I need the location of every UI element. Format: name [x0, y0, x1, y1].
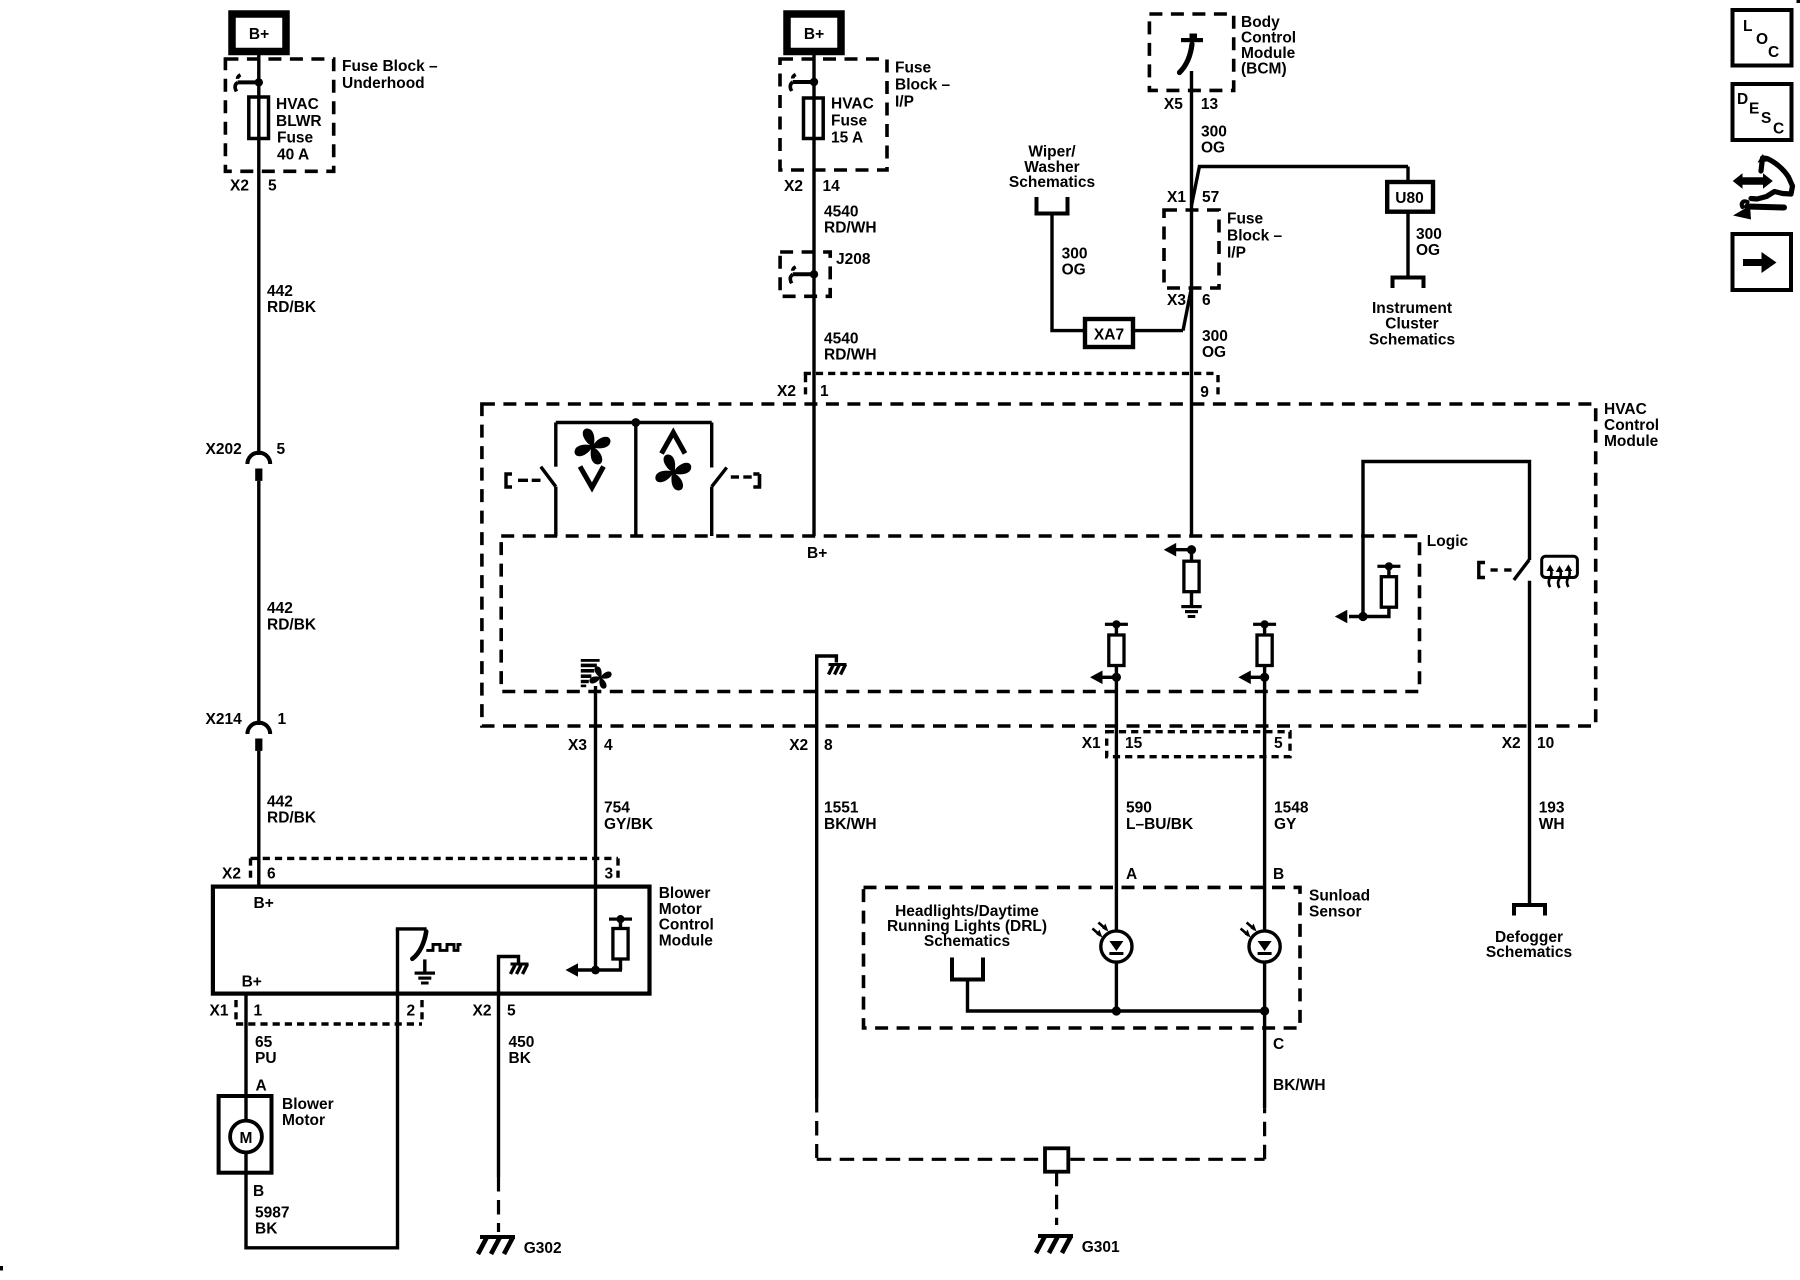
svg-text:Block –: Block –: [895, 77, 951, 94]
svg-text:B+: B+: [242, 974, 262, 991]
svg-text:10: 10: [1537, 735, 1554, 752]
svg-text:5987: 5987: [255, 1205, 289, 1222]
svg-text:4540: 4540: [824, 331, 858, 348]
svg-text:OG: OG: [1062, 262, 1086, 279]
svg-text:RD/BK: RD/BK: [267, 810, 317, 827]
svg-text:U80: U80: [1395, 190, 1423, 207]
svg-text:GY/BK: GY/BK: [604, 816, 654, 833]
svg-text:X1: X1: [210, 1003, 229, 1020]
svg-text:I/P: I/P: [895, 94, 914, 111]
svg-text:Fuse: Fuse: [831, 113, 868, 130]
svg-text:300: 300: [1062, 246, 1088, 263]
svg-text:2: 2: [407, 1003, 416, 1020]
svg-text:BK: BK: [509, 1050, 532, 1067]
svg-text:9: 9: [1200, 384, 1209, 401]
svg-text:Fuse: Fuse: [277, 130, 314, 147]
svg-text:1551: 1551: [824, 800, 859, 817]
svg-text:B+: B+: [249, 26, 269, 43]
svg-text:BK: BK: [255, 1221, 278, 1238]
svg-text:RD/BK: RD/BK: [267, 617, 317, 634]
svg-text:X1: X1: [1082, 735, 1101, 752]
svg-text:590: 590: [1126, 800, 1152, 817]
svg-text:C: C: [1773, 121, 1784, 138]
svg-text:X2: X2: [473, 1003, 492, 1020]
svg-text:B: B: [253, 1183, 264, 1200]
svg-text:RD/WH: RD/WH: [824, 220, 877, 237]
svg-text:6: 6: [267, 866, 276, 883]
svg-text:J208: J208: [836, 251, 871, 268]
svg-text:X2: X2: [1502, 735, 1521, 752]
svg-text:PU: PU: [255, 1050, 277, 1067]
svg-text:B: B: [1273, 866, 1284, 883]
svg-text:L–BU/BK: L–BU/BK: [1126, 816, 1194, 833]
svg-text:Module: Module: [659, 932, 714, 949]
svg-text:Fuse Block –: Fuse Block –: [342, 58, 438, 75]
svg-text:Fuse: Fuse: [1227, 211, 1264, 228]
svg-text:OG: OG: [1201, 140, 1225, 157]
svg-text:X2: X2: [789, 737, 808, 754]
svg-text:Sensor: Sensor: [1309, 904, 1362, 921]
svg-text:Motor: Motor: [659, 901, 702, 918]
svg-text:Sunload: Sunload: [1309, 888, 1370, 905]
svg-text:S: S: [1761, 110, 1771, 127]
svg-text:HVAC: HVAC: [831, 96, 874, 113]
svg-text:C: C: [1768, 44, 1779, 61]
svg-text:5: 5: [268, 178, 277, 195]
svg-text:RD/WH: RD/WH: [824, 347, 877, 364]
svg-text:1: 1: [820, 383, 829, 400]
svg-text:Motor: Motor: [282, 1112, 325, 1129]
svg-text:WH: WH: [1539, 816, 1565, 833]
svg-text:E: E: [1749, 101, 1759, 118]
svg-text:BK/WH: BK/WH: [1273, 1077, 1326, 1094]
svg-text:40 A: 40 A: [277, 146, 309, 163]
svg-text:X1: X1: [1167, 189, 1186, 206]
svg-text:BLWR: BLWR: [276, 113, 322, 130]
svg-text:Body: Body: [1241, 14, 1280, 31]
svg-text:X2: X2: [230, 178, 249, 195]
svg-text:X202: X202: [206, 441, 242, 458]
svg-text:Module: Module: [1241, 45, 1296, 62]
svg-text:XA7: XA7: [1094, 327, 1124, 344]
svg-text:5: 5: [277, 441, 286, 458]
svg-text:Schematics: Schematics: [1369, 332, 1455, 349]
svg-text:Schematics: Schematics: [1009, 174, 1095, 191]
svg-text:X2: X2: [222, 866, 241, 883]
svg-text:6: 6: [1202, 292, 1211, 309]
svg-text:65: 65: [255, 1034, 273, 1051]
svg-text:1548: 1548: [1274, 800, 1309, 817]
svg-text:A: A: [1126, 866, 1137, 883]
svg-text:754: 754: [604, 800, 630, 817]
svg-text:15: 15: [1125, 735, 1143, 752]
svg-text:5: 5: [1274, 735, 1283, 752]
svg-text:B+: B+: [804, 26, 824, 43]
svg-text:442: 442: [267, 794, 293, 811]
svg-text:Logic: Logic: [1427, 533, 1469, 550]
svg-text:G302: G302: [524, 1240, 562, 1257]
svg-text:14: 14: [823, 178, 841, 195]
svg-text:G301: G301: [1082, 1239, 1120, 1256]
svg-text:Blower: Blower: [659, 885, 711, 902]
svg-text:X214: X214: [206, 711, 243, 728]
svg-text:HVAC: HVAC: [276, 96, 319, 113]
svg-text:8: 8: [824, 737, 833, 754]
svg-text:Cluster: Cluster: [1385, 316, 1438, 333]
svg-text:Underhood: Underhood: [342, 75, 425, 92]
svg-text:X2: X2: [784, 178, 803, 195]
svg-text:B+: B+: [254, 895, 274, 912]
svg-text:4: 4: [604, 737, 613, 754]
svg-text:L: L: [1743, 18, 1752, 35]
svg-text:RD/BK: RD/BK: [267, 299, 317, 316]
svg-text:OG: OG: [1202, 344, 1226, 361]
svg-text:193: 193: [1539, 800, 1565, 817]
svg-text:I/P: I/P: [1227, 245, 1246, 262]
svg-text:M: M: [240, 1130, 253, 1147]
svg-text:X3: X3: [1167, 292, 1186, 309]
svg-text:A: A: [256, 1078, 267, 1095]
svg-text:Fuse: Fuse: [895, 60, 932, 77]
svg-text:Control: Control: [659, 917, 714, 934]
svg-text:Control: Control: [1241, 30, 1296, 47]
svg-text:15 A: 15 A: [831, 130, 863, 147]
svg-text:5: 5: [507, 1003, 516, 1020]
svg-text:Module: Module: [1604, 433, 1659, 450]
svg-text:Control: Control: [1604, 417, 1659, 434]
svg-text:Schematics: Schematics: [924, 933, 1010, 950]
svg-text:GY: GY: [1274, 816, 1297, 833]
svg-text:4540: 4540: [824, 204, 858, 221]
svg-text:C: C: [1273, 1036, 1284, 1053]
svg-text:X5: X5: [1164, 96, 1183, 113]
svg-text:300: 300: [1201, 124, 1227, 141]
svg-text:450: 450: [509, 1034, 535, 1051]
svg-text:300: 300: [1202, 328, 1228, 345]
svg-text:Instrument: Instrument: [1372, 300, 1452, 317]
svg-text:442: 442: [267, 600, 293, 617]
svg-text:(BCM): (BCM): [1241, 61, 1287, 78]
svg-text:13: 13: [1201, 96, 1219, 113]
svg-text:442: 442: [267, 283, 293, 300]
svg-text:BK/WH: BK/WH: [824, 816, 877, 833]
svg-text:Schematics: Schematics: [1486, 944, 1572, 961]
svg-text:57: 57: [1202, 189, 1219, 206]
svg-text:3: 3: [605, 866, 614, 883]
svg-text:X2: X2: [777, 383, 796, 400]
svg-text:Blower: Blower: [282, 1096, 334, 1113]
svg-text:HVAC: HVAC: [1604, 401, 1647, 418]
svg-text:OG: OG: [1416, 242, 1440, 259]
svg-text:D: D: [1737, 91, 1748, 108]
svg-text:1: 1: [278, 711, 287, 728]
svg-text:300: 300: [1416, 226, 1442, 243]
svg-text:O: O: [1756, 31, 1768, 48]
svg-text:Block –: Block –: [1227, 228, 1283, 245]
svg-text:X3: X3: [568, 737, 587, 754]
svg-text:B+: B+: [807, 545, 827, 562]
svg-text:1: 1: [254, 1003, 263, 1020]
